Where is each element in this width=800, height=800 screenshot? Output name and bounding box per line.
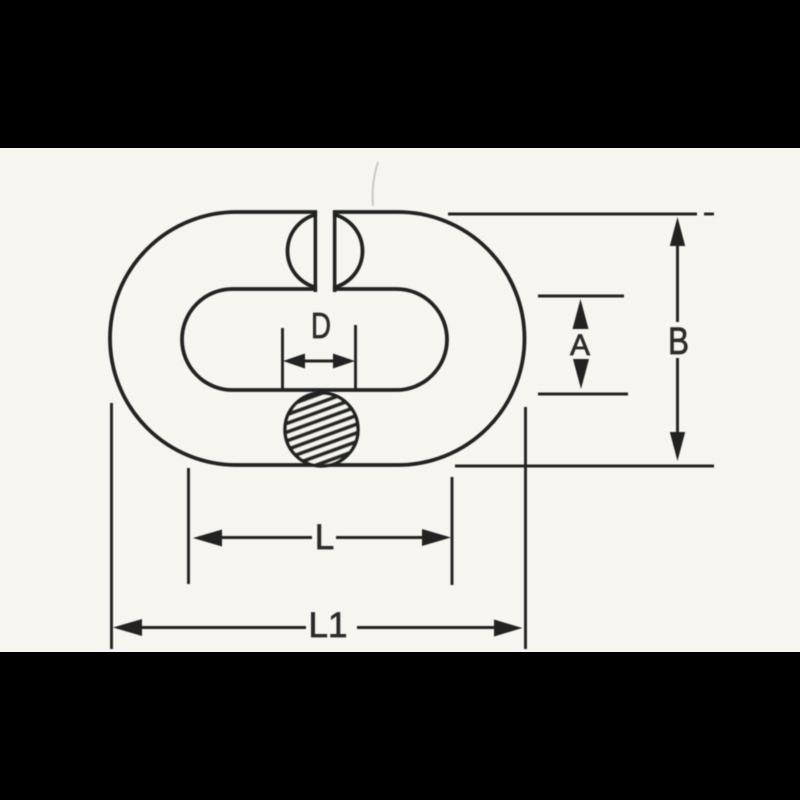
dimension L1 left extension line (110, 403, 113, 649)
split pin circle at top (288, 214, 363, 289)
faint scan artifact (373, 162, 378, 206)
dimension L line (220, 536, 312, 539)
dimension L1 right extension line (524, 407, 527, 649)
dimension D arrowhead right (333, 354, 355, 369)
bottom black band (0, 652, 800, 800)
dimension A top extension line (538, 295, 624, 298)
hatched material cross-section circle (285, 393, 358, 466)
dimension L right tick (451, 477, 454, 585)
cut edge left (314, 211, 318, 292)
dimension B arrowhead down (670, 432, 685, 461)
svg-text:L: L (315, 518, 334, 557)
dimension D line (303, 360, 335, 363)
dimension A arrowhead down (573, 359, 589, 389)
dimension D left tick (281, 328, 284, 391)
dimension L1 line (140, 626, 306, 629)
dimension L arrowhead left (193, 530, 222, 547)
cut edge right (333, 211, 337, 292)
chain link inner outline (182, 289, 447, 390)
dimension L arrowhead right (422, 529, 451, 546)
svg-text:A: A (570, 329, 590, 362)
top black band (0, 0, 800, 148)
dimension L left tick (187, 468, 190, 584)
top extension line (448, 213, 697, 216)
dimension A arrowhead up (573, 299, 589, 329)
dimension B arrowhead up (670, 217, 685, 246)
bottom extension line (455, 465, 714, 468)
dimension L1 arrowhead left (113, 619, 142, 636)
dimension A bottom extension line (538, 393, 628, 396)
svg-text:D: D (311, 305, 331, 346)
dimension L1 arrowhead right (494, 620, 523, 637)
svg-text:B: B (668, 321, 689, 363)
chain link outer outline (110, 212, 525, 465)
dimension B line (676, 243, 679, 322)
svg-text:L1: L1 (309, 606, 348, 645)
dimension D right tick (354, 325, 357, 389)
cut gap erase (318, 206, 333, 295)
dimension D arrowhead left (283, 354, 305, 369)
